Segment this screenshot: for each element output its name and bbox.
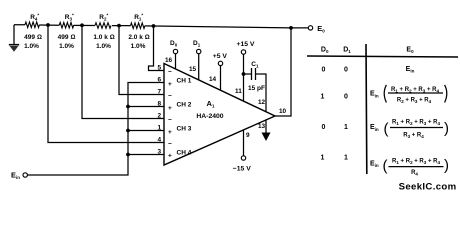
svg-text:14: 14 xyxy=(209,76,217,83)
svg-text:16: 16 xyxy=(165,57,173,64)
svg-text:0: 0 xyxy=(322,67,326,74)
svg-text:1.0%: 1.0% xyxy=(96,43,111,50)
svg-text:+: + xyxy=(168,129,172,136)
svg-text:+: + xyxy=(168,105,172,112)
svg-text:−: − xyxy=(168,93,172,100)
svg-text:CH 1: CH 1 xyxy=(177,78,192,85)
svg-text:9: 9 xyxy=(246,132,250,139)
svg-text:15 pF: 15 pF xyxy=(248,85,265,92)
svg-text:499 Ω: 499 Ω xyxy=(58,34,76,41)
svg-text:1.0 k Ω: 1.0 k Ω xyxy=(93,34,114,41)
svg-text:11: 11 xyxy=(235,88,242,95)
svg-text:(: ( xyxy=(384,121,389,138)
svg-text:R1 + R2 + R3 + R4: R1 + R2 + R3 + R4 xyxy=(392,158,440,165)
svg-text:1: 1 xyxy=(321,155,325,162)
svg-text:1: 1 xyxy=(344,124,348,131)
svg-text:(: ( xyxy=(383,158,388,175)
svg-text:SeekIC.com: SeekIC.com xyxy=(399,182,457,193)
svg-text:0: 0 xyxy=(322,124,326,131)
svg-text:13: 13 xyxy=(258,123,266,130)
svg-text:5: 5 xyxy=(157,65,161,72)
svg-text:HA-2400: HA-2400 xyxy=(196,113,223,120)
svg-text:2.0 k Ω: 2.0 k Ω xyxy=(128,34,149,41)
svg-text:0: 0 xyxy=(344,67,348,74)
svg-text:0: 0 xyxy=(344,93,348,100)
svg-text:): ) xyxy=(444,157,449,174)
svg-text:3: 3 xyxy=(157,149,161,156)
svg-text:8: 8 xyxy=(157,101,161,108)
svg-text:+: + xyxy=(168,153,172,160)
svg-text:1: 1 xyxy=(321,93,325,100)
svg-text:CH 4: CH 4 xyxy=(177,150,192,157)
svg-text:4: 4 xyxy=(157,137,161,144)
svg-text:7: 7 xyxy=(157,89,161,96)
svg-text:15: 15 xyxy=(189,66,197,73)
svg-text:1: 1 xyxy=(157,125,161,132)
svg-text:CH 2: CH 2 xyxy=(177,102,192,109)
svg-text:+: + xyxy=(168,81,172,88)
svg-text:): ) xyxy=(444,120,449,137)
svg-text:R1 + R2 + R3 + R4: R1 + R2 + R3 + R4 xyxy=(392,119,440,126)
svg-text:R4: R4 xyxy=(411,170,418,177)
svg-text:12: 12 xyxy=(258,99,266,106)
svg-text:−: − xyxy=(168,69,172,76)
svg-text:499 Ω: 499 Ω xyxy=(24,34,42,41)
svg-text:CH 3: CH 3 xyxy=(177,126,192,133)
svg-text:+15 V: +15 V xyxy=(237,41,255,48)
svg-text:10: 10 xyxy=(279,108,287,115)
svg-text:1.0%: 1.0% xyxy=(24,43,39,50)
svg-text:R2 + R3 + R4: R2 + R3 + R4 xyxy=(397,98,432,105)
svg-text:−: − xyxy=(168,141,172,148)
svg-text:−15 V: −15 V xyxy=(233,166,251,173)
svg-text:R3 + R4: R3 + R4 xyxy=(403,132,424,139)
svg-text:1.0%: 1.0% xyxy=(59,43,74,50)
svg-text:+5 V: +5 V xyxy=(213,53,228,60)
svg-text:1: 1 xyxy=(344,155,348,162)
svg-text:1.0%: 1.0% xyxy=(131,43,146,50)
svg-text:6: 6 xyxy=(157,77,161,84)
svg-text:−: − xyxy=(168,117,172,124)
svg-text:2: 2 xyxy=(157,113,161,120)
